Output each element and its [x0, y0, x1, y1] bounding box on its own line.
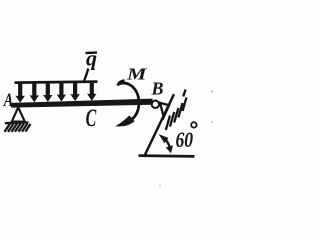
incline hatching — [166, 90, 187, 131]
scan speck 3 — [159, 184, 161, 186]
svg-text:M: M — [126, 65, 147, 83]
pin support A triangle — [12, 107, 25, 121]
svg-text:B: B — [151, 79, 164, 99]
angle arc lower arrowhead — [166, 145, 173, 153]
svg-text:A: A — [3, 89, 13, 110]
load arrow 2 — [30, 83, 39, 103]
angle arc upper arrowhead — [159, 134, 169, 143]
ground line at incline base — [139, 154, 195, 158]
moment M arrowhead — [115, 115, 134, 126]
beam AB — [11, 99, 153, 108]
load arrow 1 — [16, 83, 25, 103]
svg-text:C: C — [86, 103, 97, 132]
q pointer line — [84, 69, 89, 82]
degree symbol — [191, 122, 196, 127]
load arrow 5 — [70, 83, 79, 102]
label q bar — [86, 51, 98, 54]
60 degree angle arc — [165, 139, 170, 147]
scan speck 2 — [211, 121, 213, 123]
pin support A ground line — [5, 121, 29, 124]
roller circle at B — [152, 101, 159, 108]
svg-text:q: q — [86, 46, 97, 71]
load arrow 6 — [87, 83, 96, 101]
roller wedge at B — [160, 103, 169, 117]
load arrow 4 — [57, 83, 66, 102]
load arrow 3 — [43, 83, 52, 102]
moment M arc — [118, 81, 139, 119]
svg-text:60: 60 — [176, 128, 194, 152]
scan speck 1 — [211, 90, 213, 92]
distributed load line — [15, 82, 98, 83]
pin support A hatching — [5, 123, 31, 131]
inclined surface line — [144, 94, 174, 156]
